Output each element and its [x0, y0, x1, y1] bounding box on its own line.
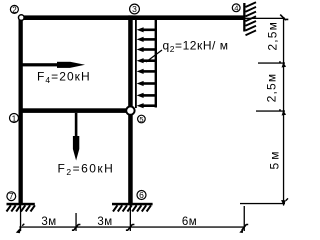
tick arrow at x=130 junction: [126, 224, 134, 230]
svg-text:F2=60кН: F2=60кН: [58, 162, 115, 178]
dimension extension line at base level: [240, 203, 285, 204]
support: fixed base under middle column (node 6): [112, 203, 153, 212]
node label 6: [137, 190, 146, 200]
label 3m right: [97, 216, 112, 228]
dimension: right vertical dimension line: [283, 17, 284, 206]
label 3m left: [41, 216, 56, 228]
extension tick below middle support: [130, 205, 131, 231]
support: wall at right end of top beam (node 4): [243, 2, 256, 35]
node label 3: [130, 4, 140, 14]
svg-text:2,5м: 2,5м: [266, 21, 280, 51]
dimension: bottom horizontal dimension line: [19, 226, 245, 227]
tick arrow at F4 level junction: [279, 61, 286, 67]
svg-text:3: 3: [132, 4, 137, 14]
svg-text:2,5м: 2,5м: [265, 73, 279, 103]
tick arrow at x=244 junction: [239, 224, 248, 233]
tick arrow at middle beam junction: [279, 109, 286, 115]
label 2,5m lower: [265, 73, 279, 103]
tick arrow at x=20 junction: [16, 224, 24, 234]
member: left column (nodes 2-1, down to support 7): [19, 15, 23, 203]
tick arrow at x=76 junction: [72, 224, 81, 230]
svg-text:5м: 5м: [268, 149, 282, 170]
member: middle beam (nodes 1-5): [19, 108, 133, 113]
leader line for q label: [146, 50, 162, 62]
arrow down at bottom of right dim line: [281, 198, 288, 206]
force F2=60kN vertical arrow: [58, 113, 115, 177]
distributed load q2=12kN/m on middle column: offset line: [135, 20, 137, 108]
label q2=12kN/m: [163, 39, 229, 55]
svg-text:3м: 3м: [41, 216, 56, 228]
tick at top of right dim line: [280, 15, 288, 21]
distributed load arrows (8): [137, 27, 157, 108]
node label 5: [138, 115, 146, 124]
svg-text:6: 6: [139, 190, 144, 200]
svg-text:4: 4: [234, 4, 238, 13]
hinge circle at top-left corner (node 2): [19, 15, 25, 21]
dimension extension line at beam level: [246, 18, 286, 19]
svg-text:2: 2: [12, 5, 17, 14]
svg-text:F4=20кН: F4=20кН: [37, 70, 91, 86]
label 5m: [268, 149, 282, 170]
distributed load tail line: [155, 20, 157, 108]
member: top beam (nodes 2-3-4): [19, 15, 246, 20]
support: fixed base under left column (node 7): [7, 203, 35, 212]
node label 1: [10, 113, 19, 123]
force F4=20kN horizontal arrow: [23, 62, 91, 85]
extension tick below left support: [20, 205, 21, 231]
svg-text:5: 5: [139, 115, 143, 124]
hinge circle at middle joint (node 5): [126, 106, 134, 114]
svg-text:3м: 3м: [97, 216, 112, 228]
dimension extension line at F4 level: [258, 62, 285, 63]
svg-text:7: 7: [9, 191, 14, 201]
label 6m: [182, 216, 197, 228]
dimension extension line at middle beam level: [256, 110, 285, 111]
extension tick at 3m mark (x=76): [75, 213, 76, 231]
member: middle column (nodes 3-5, down to support 6): [128, 15, 133, 203]
svg-text:1: 1: [12, 113, 17, 123]
node label 7: [7, 191, 16, 201]
node label 4: [232, 4, 240, 13]
svg-text:6м: 6м: [182, 216, 197, 228]
label 2,5m upper: [266, 21, 280, 51]
extension tick below wall support (x=244): [244, 206, 245, 231]
node label 2: [10, 5, 18, 14]
